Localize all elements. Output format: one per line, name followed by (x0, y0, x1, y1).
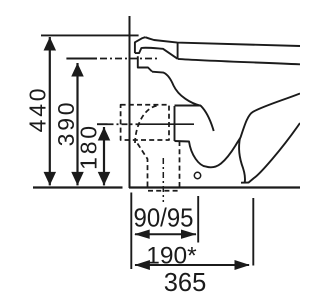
dashed S-trap left leg (138, 144, 148, 189)
floor line left segment (33, 186, 123, 188)
wall line (129, 16, 131, 188)
outlet face vertical (174, 106, 176, 141)
toilet rim top line (145, 37, 300, 46)
arrowhead 90/95 right (181, 230, 197, 239)
dimension line 390 (76, 63, 78, 185)
bowl back curve (152, 72, 214, 131)
pedestal waist curve and bowl front inner curve (175, 94, 301, 168)
dimension line 440 (49, 37, 51, 185)
outlet vertical centerline below floor (dash-dot) (162, 158, 164, 202)
extension line 365 right (252, 198, 254, 266)
arrowhead 365 right (235, 260, 251, 270)
seat lid bottom line (135, 48, 178, 59)
arrowhead 390 down (71, 172, 84, 186)
svg-text:440: 440 (25, 86, 51, 133)
outlet top edge (175, 105, 201, 107)
toilet inlet spigot outline (135, 37, 145, 53)
centerline inlet (dash-dot) (100, 58, 157, 60)
tick line 440 (41, 34, 139, 36)
spigot foot step (138, 56, 152, 71)
arrowhead 180 down (98, 172, 111, 186)
seat hinge vertical (177, 43, 179, 59)
foot bottom and skirt diagonal (241, 123, 300, 183)
dashed trap housing rectangle (121, 105, 169, 140)
fixing hole circle (194, 172, 200, 178)
tick line 180 (97, 123, 108, 125)
svg-text:190*: 190* (146, 243, 197, 270)
dashed outlet below floor (148, 190, 180, 192)
floor line right segment (129, 186, 300, 188)
arrowhead 365 left (134, 260, 150, 270)
dimension line 180 (103, 127, 105, 185)
svg-text:90/95: 90/95 (134, 205, 194, 233)
svg-text:180: 180 (75, 123, 101, 170)
rim lower edge line (178, 59, 300, 64)
dimension line 365 (135, 264, 249, 266)
arrowhead 440 down (44, 172, 57, 186)
arrowhead 390 up (71, 63, 84, 77)
centerline outlet horizontal (dash-dot then solid) (108, 123, 141, 125)
front foot face (239, 138, 245, 183)
extension line 90/95 right (197, 196, 199, 243)
extension line below wall (130, 193, 132, 270)
arrowhead 90/95 left (134, 230, 150, 239)
arrowhead 440 up (44, 37, 57, 51)
svg-text:365: 365 (164, 269, 207, 297)
dashed S-trap right leg (179, 141, 181, 188)
arrowhead 180 up (98, 127, 111, 141)
dimension line 90/95 (135, 233, 196, 235)
dashed trap bend arc (135, 106, 158, 144)
tick line 390 (66, 58, 97, 60)
